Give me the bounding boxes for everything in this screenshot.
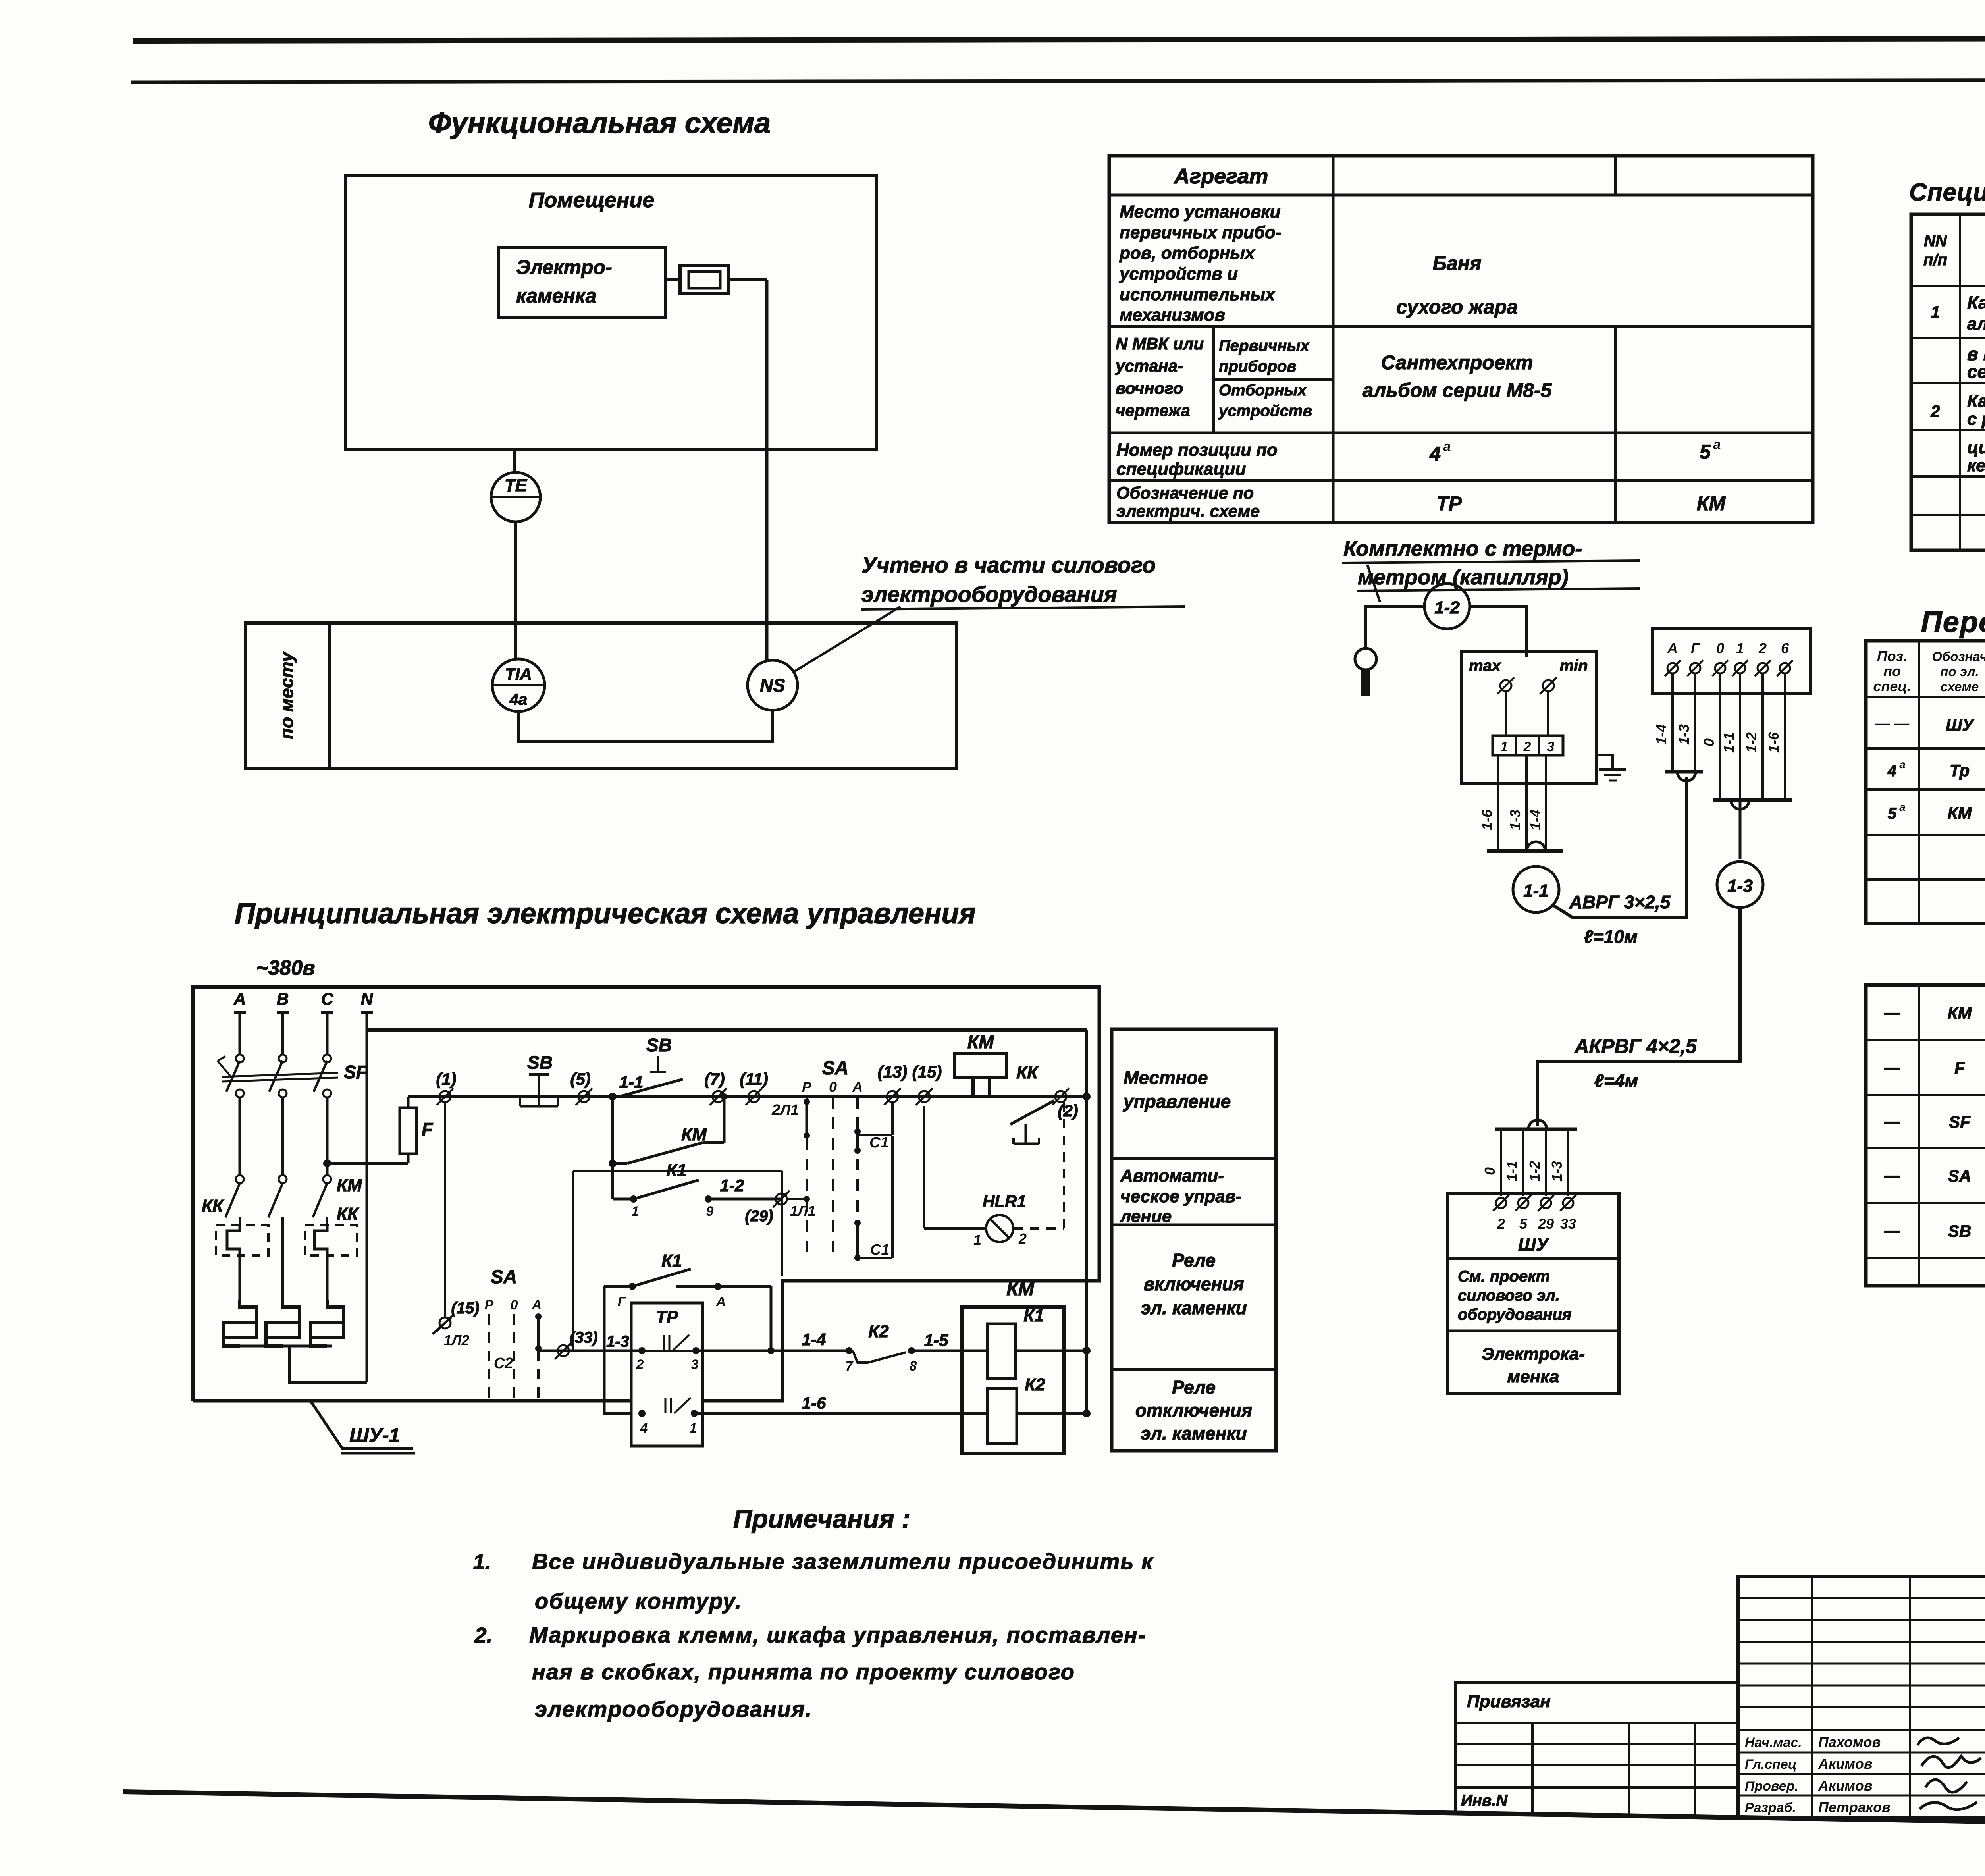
svg-text:(5): (5) bbox=[570, 1070, 590, 1088]
control rail from fuse bbox=[408, 1095, 1087, 1098]
SHU divider 2 bbox=[1447, 1330, 1619, 1332]
svg-text:ШУ: ШУ bbox=[1946, 715, 1975, 734]
svg-text:ТР: ТР bbox=[656, 1307, 678, 1327]
contactor KM main contacts bbox=[236, 1175, 244, 1183]
svg-text:схеме: схеме bbox=[1941, 679, 1979, 694]
right legend column bbox=[1112, 1029, 1276, 1451]
svg-text:—: — bbox=[1884, 1004, 1900, 1022]
label ШУ-1 leader bbox=[310, 1401, 413, 1448]
svg-text:SF: SF bbox=[1949, 1112, 1971, 1131]
svg-text:(15): (15) bbox=[912, 1062, 942, 1081]
perechen table frame bbox=[1866, 641, 1985, 924]
svg-text:NS: NS bbox=[760, 675, 785, 696]
coil KM leads bbox=[971, 1078, 975, 1097]
svg-text:Отборных: Отборных bbox=[1219, 382, 1307, 399]
svg-text:по эл.: по эл. bbox=[1940, 664, 1979, 679]
svg-text:2: 2 bbox=[1018, 1230, 1027, 1247]
leader to capillary bbox=[1367, 565, 1380, 602]
svg-text:алюминиевой жилой: алюминиевой жилой bbox=[1967, 314, 1985, 334]
terminal (7) bbox=[710, 1088, 727, 1105]
shkaf table frame bbox=[1866, 985, 1985, 1286]
svg-text:1-2: 1-2 bbox=[1526, 1161, 1543, 1182]
stamp middle table bbox=[1738, 1576, 1985, 1818]
svg-text:А: А bbox=[716, 1294, 726, 1309]
svg-text:КК: КК bbox=[202, 1196, 224, 1216]
terminal (33) bbox=[555, 1342, 572, 1359]
svg-text:Кабель контрольный: Кабель контрольный bbox=[1967, 391, 1985, 411]
svg-text:1Л1: 1Л1 bbox=[790, 1203, 816, 1219]
room box (Помещение) bbox=[346, 176, 876, 450]
terminal (29) bbox=[773, 1191, 790, 1207]
vertical 1-1 down bbox=[611, 1097, 614, 1199]
svg-text:1-1: 1-1 bbox=[1504, 1161, 1520, 1182]
rail 1-4 bbox=[696, 1350, 849, 1352]
svg-text:спецификации: спецификации bbox=[1116, 459, 1246, 479]
svg-text:4: 4 bbox=[640, 1421, 648, 1436]
agregat table row lines bbox=[1109, 194, 1813, 197]
breaker SF linkage bar bbox=[222, 1073, 338, 1077]
feed wires of K1 lower bbox=[573, 1170, 782, 1172]
SHU box bbox=[1447, 1194, 1619, 1394]
instrument TE (temperature sensor) bbox=[491, 472, 540, 522]
bypass wire to TP pin 4 bbox=[604, 1286, 642, 1413]
svg-text:(15): (15) bbox=[451, 1300, 479, 1317]
thermal element KK phase A bbox=[216, 1225, 268, 1255]
wire C1 lower link bbox=[858, 1257, 892, 1259]
svg-text:1-6: 1-6 bbox=[1765, 732, 1782, 753]
svg-text:Акимов: Акимов bbox=[1818, 1756, 1873, 1772]
coil K1 link to neutral bbox=[1016, 1350, 1087, 1352]
bus for АВРГ bbox=[1665, 770, 1703, 774]
wire B down bbox=[281, 1224, 284, 1300]
svg-text:NN: NN bbox=[1924, 232, 1947, 250]
svg-text:1-4: 1-4 bbox=[1527, 810, 1544, 830]
rail 1-5 bbox=[912, 1350, 987, 1352]
svg-text:А: А bbox=[532, 1298, 542, 1313]
breaker SF actuator mark bbox=[218, 1061, 232, 1078]
svg-text:К2: К2 bbox=[868, 1322, 889, 1341]
wire C1 to (13) bbox=[858, 1134, 892, 1136]
svg-text:5: 5 bbox=[1888, 805, 1897, 822]
leader line to NS bbox=[793, 607, 900, 672]
svg-text:1-2: 1-2 bbox=[1434, 598, 1460, 617]
svg-text:п/п: п/п bbox=[1923, 251, 1947, 269]
svg-text:0: 0 bbox=[511, 1298, 518, 1313]
svg-text:29: 29 bbox=[1538, 1216, 1554, 1232]
sensor box on heater bbox=[680, 265, 729, 294]
svg-text:—: — bbox=[1884, 1113, 1900, 1130]
svg-text:С: С bbox=[321, 989, 333, 1008]
svg-text:электрооборудования: электрооборудования bbox=[861, 582, 1117, 607]
svg-text:ℓ=10м: ℓ=10м bbox=[1584, 926, 1638, 947]
svg-text:—: — bbox=[1884, 1059, 1900, 1076]
svg-text:Реле: Реле bbox=[1172, 1377, 1216, 1398]
agregat table frame bbox=[1109, 156, 1813, 523]
terminals of box bbox=[1665, 660, 1681, 676]
svg-text:5: 5 bbox=[1700, 441, 1711, 463]
svg-text:F: F bbox=[422, 1119, 434, 1139]
spec table columns bbox=[1959, 214, 1961, 550]
wire vertical to NS bbox=[765, 280, 769, 661]
svg-text:1-2: 1-2 bbox=[720, 1176, 744, 1195]
svg-text:К1: К1 bbox=[1023, 1306, 1044, 1325]
terminal strip 1 2 3 bbox=[1493, 736, 1563, 755]
junction C to fuse bbox=[323, 1159, 331, 1167]
svg-text:Автомати-: Автомати- bbox=[1120, 1166, 1224, 1186]
terminal box А Г 0 1 2 6 bbox=[1653, 629, 1810, 693]
svg-text:Привязан: Привязан bbox=[1467, 1692, 1551, 1711]
svg-text:(29): (29) bbox=[745, 1207, 773, 1225]
rail to neutral return bbox=[1066, 1095, 1087, 1098]
electric heater box (Электрокаменка) bbox=[499, 248, 666, 317]
terminal (11) bbox=[746, 1088, 762, 1105]
svg-text:2: 2 bbox=[1758, 640, 1767, 656]
svg-text:TE: TE bbox=[505, 476, 528, 495]
svg-text:С1: С1 bbox=[869, 1134, 889, 1151]
svg-text:устройств: устройств bbox=[1218, 402, 1312, 420]
svg-text:Провер.: Провер. bbox=[1745, 1779, 1798, 1794]
svg-text:а: а bbox=[1899, 758, 1906, 771]
svg-text:Первичных: Первичных bbox=[1219, 337, 1310, 355]
svg-text:КМ: КМ bbox=[1697, 492, 1726, 515]
svg-text:Местное: Местное bbox=[1124, 1067, 1208, 1088]
svg-text:2: 2 bbox=[1930, 402, 1940, 420]
SA1 C1 contacts bbox=[854, 1128, 861, 1135]
svg-text:min: min bbox=[1559, 657, 1588, 675]
svg-text:механизмов: механизмов bbox=[1120, 305, 1225, 325]
svg-text:Агрегат: Агрегат bbox=[1174, 164, 1268, 188]
svg-text:1-6: 1-6 bbox=[802, 1394, 826, 1412]
svg-text:Инв.N: Инв.N bbox=[1461, 1792, 1508, 1809]
rail 1-6 bbox=[694, 1412, 987, 1415]
band divider bbox=[328, 623, 331, 768]
svg-text:ℓ=4м: ℓ=4м bbox=[1594, 1070, 1638, 1091]
svg-text:Обозначение по: Обозначение по bbox=[1116, 484, 1254, 503]
stamp left table bbox=[1456, 1683, 1738, 1814]
cable marker loop bbox=[1527, 842, 1545, 851]
svg-text:КМ: КМ bbox=[967, 1032, 994, 1052]
svg-text:а: а bbox=[1443, 439, 1451, 454]
svg-text:Петраков: Петраков bbox=[1818, 1799, 1891, 1815]
svg-text:Обознач: Обознач bbox=[1932, 649, 1985, 664]
lamp feed wire right (dashed) bbox=[1013, 1227, 1064, 1230]
svg-text:Гл.спец: Гл.спец bbox=[1745, 1757, 1797, 1772]
instrument NS bbox=[748, 660, 798, 710]
svg-text:1-4: 1-4 bbox=[802, 1330, 826, 1349]
svg-text:метром (капилляр): метром (капилляр) bbox=[1358, 565, 1569, 589]
svg-text:К1: К1 bbox=[661, 1251, 682, 1271]
capillary bulb bbox=[1355, 648, 1376, 670]
phase input A bbox=[234, 1011, 246, 1014]
svg-text:Примечания :: Примечания : bbox=[733, 1504, 911, 1533]
svg-text:SA: SA bbox=[1948, 1166, 1971, 1185]
svg-text:1-3: 1-3 bbox=[1549, 1161, 1565, 1182]
svg-text:1: 1 bbox=[1931, 303, 1940, 321]
svg-text:каменка: каменка bbox=[516, 285, 597, 307]
svg-text:Перечень приборов и аппарат: Перечень приборов и аппаратуры bbox=[1921, 605, 1985, 638]
svg-text:—: — bbox=[1884, 1222, 1900, 1240]
perechen rows bbox=[1866, 696, 1985, 698]
cable bus above 1-1 bbox=[1487, 849, 1563, 853]
wire room box to TE bbox=[513, 450, 516, 473]
svg-text:N МВК или: N МВК или bbox=[1116, 334, 1204, 353]
svg-text:SВ: SВ bbox=[527, 1052, 553, 1073]
thermometer box TP bbox=[631, 1303, 703, 1446]
svg-text:1-3: 1-3 bbox=[1507, 810, 1523, 830]
wire 1-2 to thermostat box bbox=[1470, 606, 1526, 657]
fuse F bbox=[407, 1154, 410, 1163]
svg-text:ке сеч. 4×2,5 мм: ке сеч. 4×2,5 мм bbox=[1967, 456, 1985, 475]
neutral return vertical bbox=[1085, 1030, 1088, 1413]
svg-text:1: 1 bbox=[973, 1232, 981, 1248]
svg-text:(7): (7) bbox=[704, 1070, 725, 1088]
wires A C down to heaters bbox=[239, 1255, 241, 1300]
svg-text:Акимов: Акимов bbox=[1818, 1778, 1873, 1794]
svg-text:приборов: приборов bbox=[1219, 358, 1297, 375]
bus for АКРВГ bbox=[1713, 798, 1792, 802]
svg-text:2.: 2. bbox=[474, 1623, 492, 1647]
svg-text:2Л1: 2Л1 bbox=[771, 1102, 799, 1118]
ground lead bbox=[1597, 755, 1613, 769]
svg-text:9: 9 bbox=[706, 1204, 714, 1219]
svg-text:спец.: спец. bbox=[1873, 678, 1911, 694]
svg-text:3: 3 bbox=[691, 1357, 699, 1372]
branch A to 1-4 rail bbox=[770, 1286, 773, 1351]
svg-text:Г: Г bbox=[618, 1294, 627, 1309]
junction circle 1-3 bbox=[1717, 862, 1763, 908]
svg-text:1-1: 1-1 bbox=[1721, 732, 1737, 753]
neutral drop to heaters bbox=[366, 1030, 368, 1382]
svg-text:Реле: Реле bbox=[1172, 1250, 1216, 1271]
svg-text:Тр: Тр bbox=[1950, 761, 1970, 780]
vertical from (1) to SA2 bbox=[444, 1102, 446, 1317]
svg-text:управление: управление bbox=[1123, 1091, 1231, 1112]
svg-text:Кабель силовой с: Кабель силовой с bbox=[1967, 292, 1985, 313]
phase input B bbox=[277, 1011, 289, 1014]
junction 1-1 bbox=[609, 1093, 617, 1101]
heater return bus bbox=[240, 1345, 332, 1348]
svg-text:сухого жара: сухого жара bbox=[1396, 296, 1518, 318]
terminal (13) bbox=[884, 1088, 901, 1105]
svg-text:1-6: 1-6 bbox=[1479, 809, 1495, 830]
svg-text:1-3: 1-3 bbox=[606, 1333, 629, 1350]
svg-text:4: 4 bbox=[1429, 443, 1441, 465]
svg-text:~380в: ~380в bbox=[256, 956, 315, 979]
svg-text:Учтено в части силового: Учтено в части силового bbox=[861, 552, 1156, 577]
svg-text:8: 8 bbox=[910, 1359, 917, 1374]
svg-text:менка: менка bbox=[1507, 1367, 1559, 1386]
svg-text:F: F bbox=[1954, 1059, 1965, 1077]
agregat table column line 2 segments bbox=[1614, 156, 1617, 195]
terminal (2) bbox=[1052, 1088, 1069, 1105]
terminal max bbox=[1497, 677, 1514, 694]
wires max min to strip bbox=[1505, 691, 1507, 736]
svg-text:1Л2: 1Л2 bbox=[444, 1332, 470, 1348]
svg-text:Р: Р bbox=[485, 1298, 494, 1313]
svg-text:1: 1 bbox=[1736, 640, 1744, 656]
svg-text:1-3: 1-3 bbox=[1727, 876, 1753, 896]
svg-text:(11): (11) bbox=[740, 1070, 768, 1088]
heater element B bbox=[266, 1300, 299, 1337]
svg-text:эл. каменки: эл. каменки bbox=[1141, 1423, 1247, 1444]
terminal (5) bbox=[576, 1088, 592, 1105]
svg-text:К2: К2 bbox=[1025, 1375, 1045, 1394]
svg-text:TIA: TIA bbox=[505, 665, 532, 683]
schematic outline bbox=[193, 987, 1099, 1401]
cable АКРВГ 4х2,5 run bbox=[1538, 908, 1740, 1126]
heater element C bbox=[310, 1300, 344, 1337]
svg-text:ров, отборных: ров, отборных bbox=[1119, 243, 1255, 263]
svg-text:1.: 1. bbox=[473, 1550, 491, 1574]
svg-text:6: 6 bbox=[1781, 640, 1789, 656]
svg-text:первичных прибо-: первичных прибо- bbox=[1120, 223, 1282, 242]
agregat row3 sub split bbox=[1212, 326, 1215, 433]
wire TE to TIA bbox=[514, 522, 517, 660]
svg-text:цией в ПВХ оболоч-: цией в ПВХ оболоч- bbox=[1967, 438, 1985, 457]
wires strip down to bus bbox=[1497, 755, 1499, 851]
svg-text:(2): (2) bbox=[1058, 1101, 1078, 1120]
svg-text:1-5: 1-5 bbox=[924, 1331, 948, 1350]
phase input N bbox=[361, 1011, 373, 1014]
svg-text:0: 0 bbox=[1701, 738, 1717, 746]
svg-text:max: max bbox=[1469, 657, 1501, 675]
svg-text:электрооборудования.: электрооборудования. bbox=[535, 1697, 812, 1722]
spec table frame bbox=[1911, 214, 1985, 550]
svg-text:отключения: отключения bbox=[1135, 1400, 1252, 1421]
svg-text:1: 1 bbox=[1501, 739, 1508, 754]
svg-text:Место установки: Место установки bbox=[1120, 202, 1281, 222]
svg-text:АВРГ 3×2,5: АВРГ 3×2,5 bbox=[1569, 892, 1671, 912]
wire bus to 1-3 circle bbox=[1739, 800, 1742, 859]
SHU terminals bbox=[1493, 1195, 1509, 1211]
svg-text:SB: SB bbox=[1948, 1222, 1971, 1240]
svg-text:1-1: 1-1 bbox=[619, 1073, 644, 1091]
svg-text:ная в скобках, принята по прое: ная в скобках, принята по проекту силово… bbox=[532, 1659, 1075, 1684]
svg-text:3: 3 bbox=[1547, 739, 1555, 754]
svg-text:вочного: вочного bbox=[1116, 379, 1183, 397]
svg-text:0: 0 bbox=[1482, 1167, 1498, 1175]
svg-text:Г: Г bbox=[1691, 640, 1700, 656]
wires SF to KM contacts bbox=[239, 1097, 241, 1175]
neutral rail bbox=[367, 1028, 1087, 1032]
junction circle 1-2 bbox=[1424, 584, 1470, 629]
svg-text:КМ: КМ bbox=[1948, 804, 1972, 822]
svg-text:чертежа: чертежа bbox=[1116, 401, 1190, 420]
thermostat box (max/min) bbox=[1462, 651, 1597, 783]
spec table rows bbox=[1911, 285, 1985, 287]
svg-text:С1: С1 bbox=[870, 1242, 890, 1258]
svg-text:КК: КК bbox=[337, 1204, 359, 1224]
border bottom line bbox=[123, 1792, 1985, 1830]
phase input C bbox=[321, 1011, 333, 1014]
svg-text:Помещение: Помещение bbox=[529, 188, 655, 212]
svg-text:Электро-: Электро- bbox=[516, 256, 612, 278]
svg-text:ШУ-1: ШУ-1 bbox=[349, 1424, 400, 1446]
thermal element KK phase C bbox=[305, 1225, 357, 1255]
svg-text:Маркировка клемм, шкафа управл: Маркировка клемм, шкафа управления, пост… bbox=[529, 1622, 1146, 1647]
svg-text:КК: КК bbox=[1016, 1063, 1039, 1082]
rail 1-6 to neutral bbox=[1017, 1412, 1087, 1415]
relay coil K2 bbox=[987, 1388, 1017, 1444]
svg-text:Сантехпроект: Сантехпроект bbox=[1381, 351, 1533, 374]
svg-text:4: 4 bbox=[1887, 762, 1896, 780]
lamp feed wire left bbox=[923, 1106, 925, 1228]
svg-text:Принципиальная электрическая с: Принципиальная электрическая схема управ… bbox=[235, 898, 976, 929]
border top line 1 bbox=[133, 38, 1985, 41]
svg-text:2: 2 bbox=[1523, 739, 1531, 754]
svg-text:по месту: по месту bbox=[276, 651, 297, 739]
svg-text:0: 0 bbox=[1716, 640, 1724, 656]
contactor coil KM bbox=[954, 1054, 1007, 1078]
svg-text:Нач.мас.: Нач.мас. bbox=[1745, 1735, 1802, 1750]
svg-text:по: по bbox=[1883, 663, 1901, 679]
svg-text:А: А bbox=[1667, 640, 1678, 656]
svg-text:Номер позиции по: Номер позиции по bbox=[1116, 440, 1278, 460]
svg-text:7: 7 bbox=[846, 1359, 854, 1374]
svg-text:ТР: ТР bbox=[1436, 492, 1462, 515]
svg-text:оборудования: оборудования bbox=[1458, 1306, 1571, 1323]
svg-text:(33): (33) bbox=[569, 1329, 597, 1346]
local panel band (по месту) bbox=[245, 623, 957, 768]
svg-text:а: а bbox=[1899, 801, 1906, 813]
svg-text:N: N bbox=[361, 989, 374, 1008]
svg-text:Пахомов: Пахомов bbox=[1818, 1734, 1881, 1750]
svg-text:Функциональная схема: Функциональная схема bbox=[428, 106, 771, 139]
ground symbol bbox=[1599, 768, 1626, 771]
contactor KM relay box bbox=[962, 1307, 1064, 1453]
breaker SF poles bbox=[236, 1055, 244, 1062]
svg-text:электрич. схеме: электрич. схеме bbox=[1116, 502, 1260, 521]
svg-text:4а: 4а bbox=[509, 691, 528, 708]
relay coil K1 bbox=[987, 1324, 1016, 1379]
svg-text:А: А bbox=[852, 1079, 863, 1095]
svg-text:1-2: 1-2 bbox=[1743, 732, 1760, 753]
perechen columns bbox=[1918, 641, 1920, 924]
svg-text:АКРВГ 4×2,5: АКРВГ 4×2,5 bbox=[1574, 1035, 1697, 1057]
bus above SHU box bbox=[1495, 1128, 1577, 1131]
svg-text:С2: С2 bbox=[494, 1355, 513, 1372]
instrument TIA 4a bbox=[492, 659, 545, 711]
svg-text:Все индивидуальные заземлители: Все индивидуальные заземлители присоедин… bbox=[532, 1549, 1154, 1574]
svg-text:(1): (1) bbox=[436, 1070, 456, 1088]
svg-text:силового эл.: силового эл. bbox=[1458, 1287, 1560, 1304]
wire bulb to junction 1-2 bbox=[1366, 606, 1424, 648]
border top line 2 bbox=[131, 79, 1985, 82]
svg-text:HLR1: HLR1 bbox=[983, 1192, 1026, 1211]
svg-text:исполнительных: исполнительных bbox=[1120, 285, 1276, 304]
svg-text:с резиновой изоля-: с резиновой изоля- bbox=[1967, 409, 1985, 429]
shkaf columns bbox=[1918, 985, 1920, 1286]
svg-text:1-3: 1-3 bbox=[1676, 724, 1692, 745]
svg-text:5: 5 bbox=[1519, 1216, 1528, 1232]
svg-text:1: 1 bbox=[632, 1204, 639, 1219]
svg-text:а: а bbox=[1713, 437, 1721, 452]
svg-text:Электрока-: Электрока- bbox=[1482, 1344, 1585, 1364]
svg-text:1-1: 1-1 bbox=[1523, 881, 1549, 900]
wires 0 1 2 6 down bbox=[1719, 674, 1721, 800]
heater element A bbox=[223, 1300, 256, 1337]
svg-text:включения: включения bbox=[1143, 1274, 1244, 1294]
svg-text:1: 1 bbox=[690, 1421, 697, 1436]
svg-text:альбом серии М8-5: альбом серии М8-5 bbox=[1363, 379, 1552, 401]
svg-text:общему контуру.: общему контуру. bbox=[535, 1589, 742, 1614]
svg-text:SF: SF bbox=[344, 1062, 368, 1082]
terminal (15) of SA2 bbox=[437, 1315, 453, 1331]
wire C2 to (33) bbox=[538, 1350, 631, 1352]
svg-text:33: 33 bbox=[1560, 1216, 1576, 1232]
svg-text:SА: SА bbox=[491, 1267, 517, 1288]
cable АВРГ 3х2,5 run bbox=[1553, 777, 1686, 917]
